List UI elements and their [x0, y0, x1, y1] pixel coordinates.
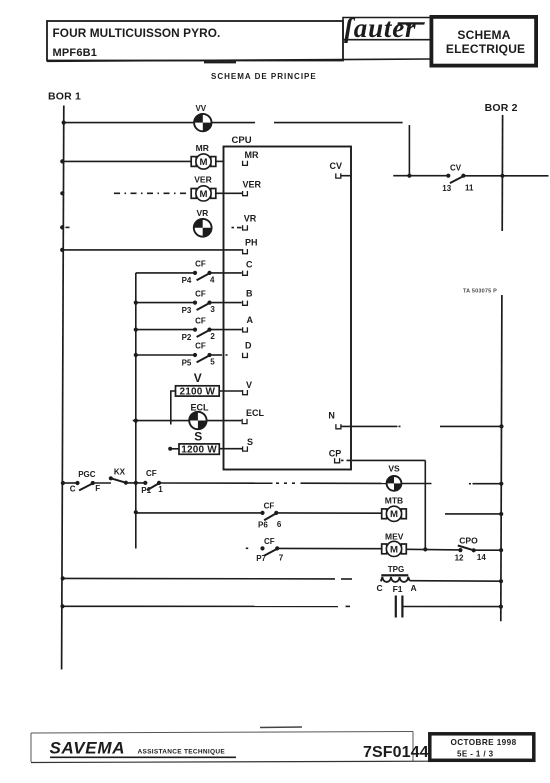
wire D row left	[136, 354, 195, 356]
svg-text:C: C	[377, 583, 383, 593]
svg-text:ELECTRIQUE: ELECTRIQUE	[446, 42, 525, 56]
svg-text:S: S	[247, 437, 253, 447]
wire B row left	[136, 302, 195, 304]
svg-text:OCTOBRE 1998: OCTOBRE 1998	[450, 738, 516, 747]
svg-text:SCHEMA: SCHEMA	[457, 28, 510, 42]
wire VS right	[402, 483, 432, 485]
junction bus-VR	[60, 225, 64, 229]
wire D row right	[210, 354, 223, 356]
svg-text:13: 13	[442, 184, 451, 193]
svg-text:F: F	[95, 484, 100, 493]
svg-text:14: 14	[477, 553, 486, 562]
junction column-B	[134, 301, 138, 305]
node S feed dot	[168, 447, 172, 451]
wire MEV right	[406, 548, 460, 551]
wire VER row dashed	[114, 192, 191, 194]
wire ECL row right	[207, 420, 242, 422]
svg-text:12: 12	[455, 553, 464, 562]
junction TPGline-BOR2	[499, 579, 503, 583]
svg-text:CF: CF	[146, 469, 157, 478]
svg-text:P6: P6	[258, 521, 268, 530]
svg-text:CV: CV	[330, 161, 343, 171]
svg-text:PH: PH	[245, 237, 258, 247]
wire TPG line left	[63, 577, 335, 580]
svg-text:1: 1	[158, 485, 163, 494]
svg-text:ECL: ECL	[191, 402, 210, 412]
svg-text:PGC: PGC	[78, 470, 96, 479]
wire VER to CPU	[216, 192, 242, 194]
junction bus-VV	[62, 121, 66, 125]
wire VV drop to CV	[408, 125, 410, 176]
Sauter logo box	[343, 18, 430, 40]
svg-text:S: S	[194, 430, 202, 444]
wire CV row	[393, 175, 448, 177]
svg-text:ASSISTANCE TECHNIQUE: ASSISTANCE TECHNIQUE	[138, 749, 226, 756]
op-amp CPU box	[224, 147, 352, 470]
junction VS-BOR2	[499, 482, 503, 486]
wire A row right	[210, 329, 242, 331]
junction bus-TPGline	[61, 576, 65, 580]
wire KX-column	[126, 482, 145, 484]
wire N row	[341, 425, 398, 427]
svg-text:VR: VR	[244, 214, 257, 224]
svg-text:P4: P4	[182, 276, 192, 285]
svg-text:SCHEMA DE PRINCIPE: SCHEMA DE PRINCIPE	[211, 72, 317, 81]
junction MTB-BOR2	[499, 512, 503, 516]
svg-text:VR: VR	[196, 208, 208, 218]
svg-text:VER: VER	[243, 180, 262, 190]
svg-text:7SF0144: 7SF0144	[363, 744, 429, 761]
junction column-P1row	[134, 481, 138, 485]
svg-text:CF: CF	[264, 537, 275, 546]
wire MR row	[62, 160, 191, 162]
svg-text:A: A	[247, 315, 254, 325]
wire C row left	[136, 272, 195, 274]
wire PGC-KX	[93, 482, 111, 484]
svg-text:P1: P1	[141, 486, 151, 495]
wire CP dashes	[341, 459, 352, 461]
junction column-D	[134, 353, 138, 357]
svg-text:F1: F1	[393, 584, 403, 594]
svg-text:SAVEMA: SAVEMA	[50, 738, 126, 757]
wire ECL row left	[133, 420, 189, 422]
junction CV-BOR2	[500, 174, 504, 178]
wire V left drop	[171, 391, 176, 425]
wire switch-column vertical	[135, 273, 137, 549]
svg-text:MR: MR	[196, 143, 209, 153]
wire MR to CPU	[216, 160, 225, 162]
wire capacitor line left	[63, 605, 339, 607]
wire TPG line right	[410, 580, 501, 583]
svg-text:CF: CF	[195, 316, 206, 325]
svg-text:B: B	[246, 289, 253, 299]
svg-text:M: M	[200, 189, 208, 200]
junction bus-MR	[60, 159, 64, 163]
junction VVdrop-CV	[407, 174, 411, 178]
svg-text:CV: CV	[450, 164, 462, 173]
wire CV stub	[341, 175, 351, 177]
svg-text:CPU: CPU	[232, 135, 252, 146]
capacitor F1	[395, 596, 397, 618]
wire VS row	[159, 482, 273, 484]
svg-text:MPF6B1: MPF6B1	[53, 47, 98, 59]
svg-text:C: C	[246, 259, 253, 269]
svg-text:CPO: CPO	[459, 535, 478, 545]
wire BOR2 bus upper	[501, 115, 503, 231]
wire VV row left	[64, 122, 194, 124]
wire MTB right	[445, 513, 501, 515]
wire BOR1 bus	[62, 106, 64, 670]
wire B row right	[210, 302, 242, 304]
wire P6 row left	[136, 512, 263, 514]
wire PGC row left	[63, 482, 78, 484]
svg-text:VER: VER	[194, 175, 211, 185]
svg-text:MEV: MEV	[385, 532, 404, 542]
resistor V 2100 W	[176, 386, 220, 396]
svg-text:MTB: MTB	[385, 495, 403, 505]
svg-text:2: 2	[210, 332, 215, 341]
svg-text:CF: CF	[195, 342, 206, 351]
wire BOR2 bus lower	[501, 295, 502, 621]
title block frame	[47, 21, 343, 61]
junction N-BOR2	[499, 424, 503, 428]
svg-text:VS: VS	[388, 464, 400, 474]
svg-text:CF: CF	[264, 501, 275, 510]
wire P7 stub	[246, 547, 248, 549]
svg-text:D: D	[245, 340, 252, 350]
svg-text:MR: MR	[245, 150, 259, 160]
svg-text:CF: CF	[195, 289, 206, 298]
svg-text:5E - 1 / 3: 5E - 1 / 3	[457, 750, 494, 759]
svg-text:A: A	[411, 583, 417, 593]
svg-text:ſauter: ſauter	[344, 13, 416, 43]
SCHEMA ELECTRIQUE box	[431, 17, 536, 66]
svg-text:11: 11	[465, 184, 474, 193]
wire P7-MEV	[277, 547, 381, 549]
svg-text:4: 4	[210, 275, 215, 284]
svg-text:3: 3	[210, 305, 215, 314]
wire V row right	[219, 390, 242, 392]
svg-text:2100 W: 2100 W	[179, 386, 215, 397]
svg-text:P3: P3	[182, 306, 192, 315]
revision box	[430, 734, 534, 761]
wire CP row	[352, 459, 425, 461]
header underline	[47, 59, 430, 61]
svg-text:V: V	[246, 380, 252, 390]
wire CPO-BOR2	[474, 549, 501, 551]
svg-text:C: C	[70, 485, 76, 494]
svg-text:TPG: TPG	[388, 565, 404, 574]
svg-text:P2: P2	[182, 333, 192, 342]
svg-text:6: 6	[277, 520, 282, 529]
svg-text:FOUR MULTICUISSON PYRO.: FOUR MULTICUISSON PYRO.	[53, 26, 221, 40]
wire CP drop	[424, 460, 426, 550]
wire S left stub	[170, 448, 179, 450]
wire A row left	[136, 329, 195, 331]
svg-text:V: V	[194, 371, 202, 385]
junction column-A	[134, 328, 138, 332]
resistor S 1200 W	[179, 444, 219, 454]
svg-text:KX: KX	[114, 468, 126, 477]
wire P6-MTB	[276, 512, 381, 514]
svg-text:CP: CP	[329, 448, 342, 458]
svg-text:BOR 1: BOR 1	[48, 91, 81, 103]
wire S row right	[219, 448, 242, 450]
junction column-P6	[134, 510, 138, 514]
wire VR stub left	[66, 226, 70, 228]
wire CV to BOR2	[463, 175, 548, 177]
junction bus-PH	[60, 248, 64, 252]
svg-text:M: M	[200, 157, 208, 168]
svg-text:P7: P7	[256, 554, 266, 563]
svg-text:VV: VV	[195, 104, 206, 113]
svg-text:N: N	[328, 411, 335, 421]
svg-text:TA 503075 P: TA 503075 P	[463, 289, 497, 295]
svg-text:BOR 2: BOR 2	[485, 102, 518, 114]
svg-text:7: 7	[279, 554, 284, 563]
junction bus-VER	[60, 191, 64, 195]
junction column-ECL	[134, 419, 138, 423]
junction bus-PGC	[61, 481, 65, 485]
footer frame	[31, 732, 413, 734]
wire C row right	[210, 272, 242, 274]
junction capline-BOR2	[499, 605, 503, 609]
svg-text:M: M	[390, 544, 398, 555]
junction CPdrop-MEV	[423, 547, 427, 551]
svg-text:ECL: ECL	[246, 408, 265, 418]
footer underline	[50, 756, 236, 758]
svg-text:P5: P5	[182, 358, 192, 367]
svg-text:M: M	[390, 509, 398, 520]
wire PH row	[62, 249, 242, 251]
svg-text:1200 W: 1200 W	[181, 445, 217, 456]
junction CPO-BOR2	[499, 548, 503, 552]
svg-text:CF: CF	[195, 260, 206, 269]
junction bus-capline	[60, 604, 64, 608]
wire VR stub right dashed	[232, 227, 242, 229]
wire capacitor line right	[404, 606, 501, 608]
wire VV row right	[212, 122, 256, 124]
svg-text:5: 5	[210, 358, 215, 367]
